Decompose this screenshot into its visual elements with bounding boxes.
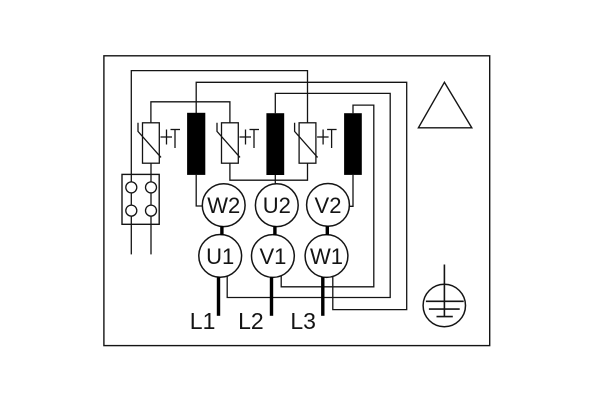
svg-text:V2: V2	[315, 193, 342, 218]
svg-text:W1: W1	[310, 244, 343, 269]
svg-text:W2: W2	[207, 193, 240, 218]
svg-text:L1: L1	[190, 308, 216, 334]
svg-text:U1: U1	[206, 244, 234, 269]
svg-text:V1: V1	[259, 244, 286, 269]
svg-text:L3: L3	[290, 308, 316, 334]
svg-text:U2: U2	[263, 193, 291, 218]
svg-text:L2: L2	[238, 308, 264, 334]
